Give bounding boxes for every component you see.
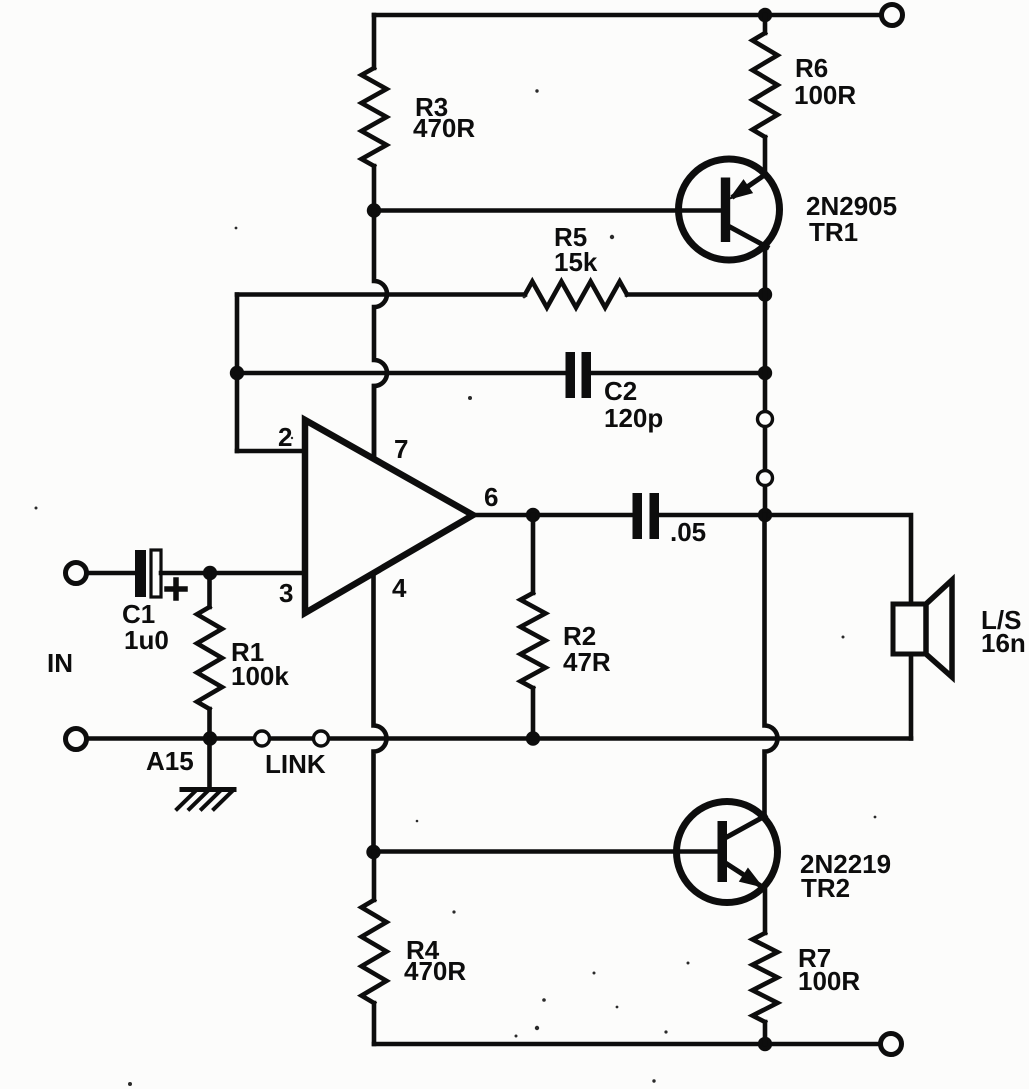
terminal bottom right [881,1034,902,1055]
wire R3 top lead [372,15,377,68]
svg-text:7: 7 [394,434,408,464]
svg-text:2: 2 [278,422,292,452]
op-amp U1 A15 [305,420,473,613]
wire R5 right lead [627,292,765,297]
svg-text:15k: 15k [554,247,598,277]
svg-text:100R: 100R [794,80,856,110]
loudspeaker L/S [893,580,952,739]
transistor TR2 2N2219 [677,802,778,903]
node feedback / C2 junction [230,366,244,380]
wire R1 top lead [207,573,212,607]
node top rail / R6 junction [758,8,772,22]
wire TR2 base [374,849,723,854]
resistor R5 [525,282,627,308]
svg-text:1u0: 1u0 [124,625,169,655]
node R4 / TR2 base junction [366,845,380,859]
svg-text:R6: R6 [795,53,828,83]
wire cap to output node [659,513,765,518]
resistor R7 [753,933,778,1022]
wire R7 bottom lead [763,1022,768,1044]
svg-text:TR2: TR2 [801,873,850,903]
wire C2 right lead [591,371,765,376]
node output junction [758,508,772,522]
wire R2 bottom lead [531,688,536,739]
svg-text:470R: 470R [413,113,475,143]
node connector bottom [758,471,773,486]
wire R4 bottom lead [372,1003,377,1044]
wire R5 left lead [237,292,525,297]
wire R2 top lead [531,515,536,593]
svg-text:.05: .05 [670,517,706,547]
resistor R6 [753,33,778,137]
resistor R4 [362,900,387,1003]
resistor R2 [521,593,546,688]
svg-text:A15: A15 [146,746,194,776]
svg-text:470R: 470R [404,956,466,986]
svg-text:120p: 120p [604,403,663,433]
link connector left [255,731,270,746]
wire output to speaker top [765,515,911,604]
terminal top right [882,5,903,26]
wire op-amp pin 7 [372,386,377,458]
svg-text:C2: C2 [604,376,637,406]
wire bottom supply rail [374,1042,880,1047]
wire R6 to TR1 emitter [763,137,768,175]
wire C2 left lead [237,371,566,376]
wire TR1 collector down [763,246,768,515]
wire top supply rail [374,13,881,18]
node R5 / TR1 collector junction [758,287,772,301]
svg-text:TR1: TR1 [809,217,858,247]
node C2 right junction [758,366,772,380]
wire input to C1 [87,571,136,576]
svg-text:100R: 100R [798,966,860,996]
resistor R1 [197,607,222,709]
wire op-amp pin 3 [210,571,305,576]
svg-text:6: 6 [484,482,498,512]
wire left feedback vertical [235,295,240,452]
svg-text:100k: 100k [231,661,289,691]
capacitor C1 electrolytic [135,550,146,597]
wire TR2 emitter to R7 [763,888,768,933]
node R1 / ground junction [203,731,217,745]
node R2 / ground rail junction [526,731,540,745]
svg-text:16n: 16n [981,628,1026,658]
wire op-amp pin 2 [237,449,305,454]
svg-text:47R: 47R [563,647,611,677]
node connector top [758,412,773,427]
ground [177,739,234,810]
wire R3 bottom lead [372,166,377,211]
terminal input bottom [66,729,87,750]
wire C1 to pin3 node [161,571,210,576]
svg-text:4: 4 [392,573,407,603]
node C1 / R1 junction [203,566,217,580]
wire R4 top lead [372,852,377,900]
wire op-amp pin 6 output [473,513,533,518]
node R3 / TR1 base junction [367,203,381,217]
svg-text:IN: IN [47,648,73,678]
svg-text:LINK: LINK [265,749,326,779]
wire left vertical x374 with hops over R5 and C2 wires [374,211,387,458]
svg-text:3: 3 [279,578,293,608]
wire TR1 base [374,208,725,213]
wire output to coupling cap [533,513,633,518]
wire R6 top lead [763,15,768,33]
node pin6 / R2 junction [526,508,540,522]
wire op-amp pin 4 down with hop over ground rail [374,575,387,852]
link connector right [314,731,329,746]
transistor TR1 2N2905 [679,159,780,260]
wire R1 bottom lead [207,709,212,739]
capacitor C2 [566,352,592,398]
wire TR1/TR2 midpoint down with hop over ground rail [765,515,778,816]
capacitor .05 [633,493,660,539]
node bottom rail / R7 junction [758,1037,772,1051]
terminal input top [66,563,87,584]
resistor R3 [362,68,387,166]
wire bottom ground rail [87,736,911,741]
